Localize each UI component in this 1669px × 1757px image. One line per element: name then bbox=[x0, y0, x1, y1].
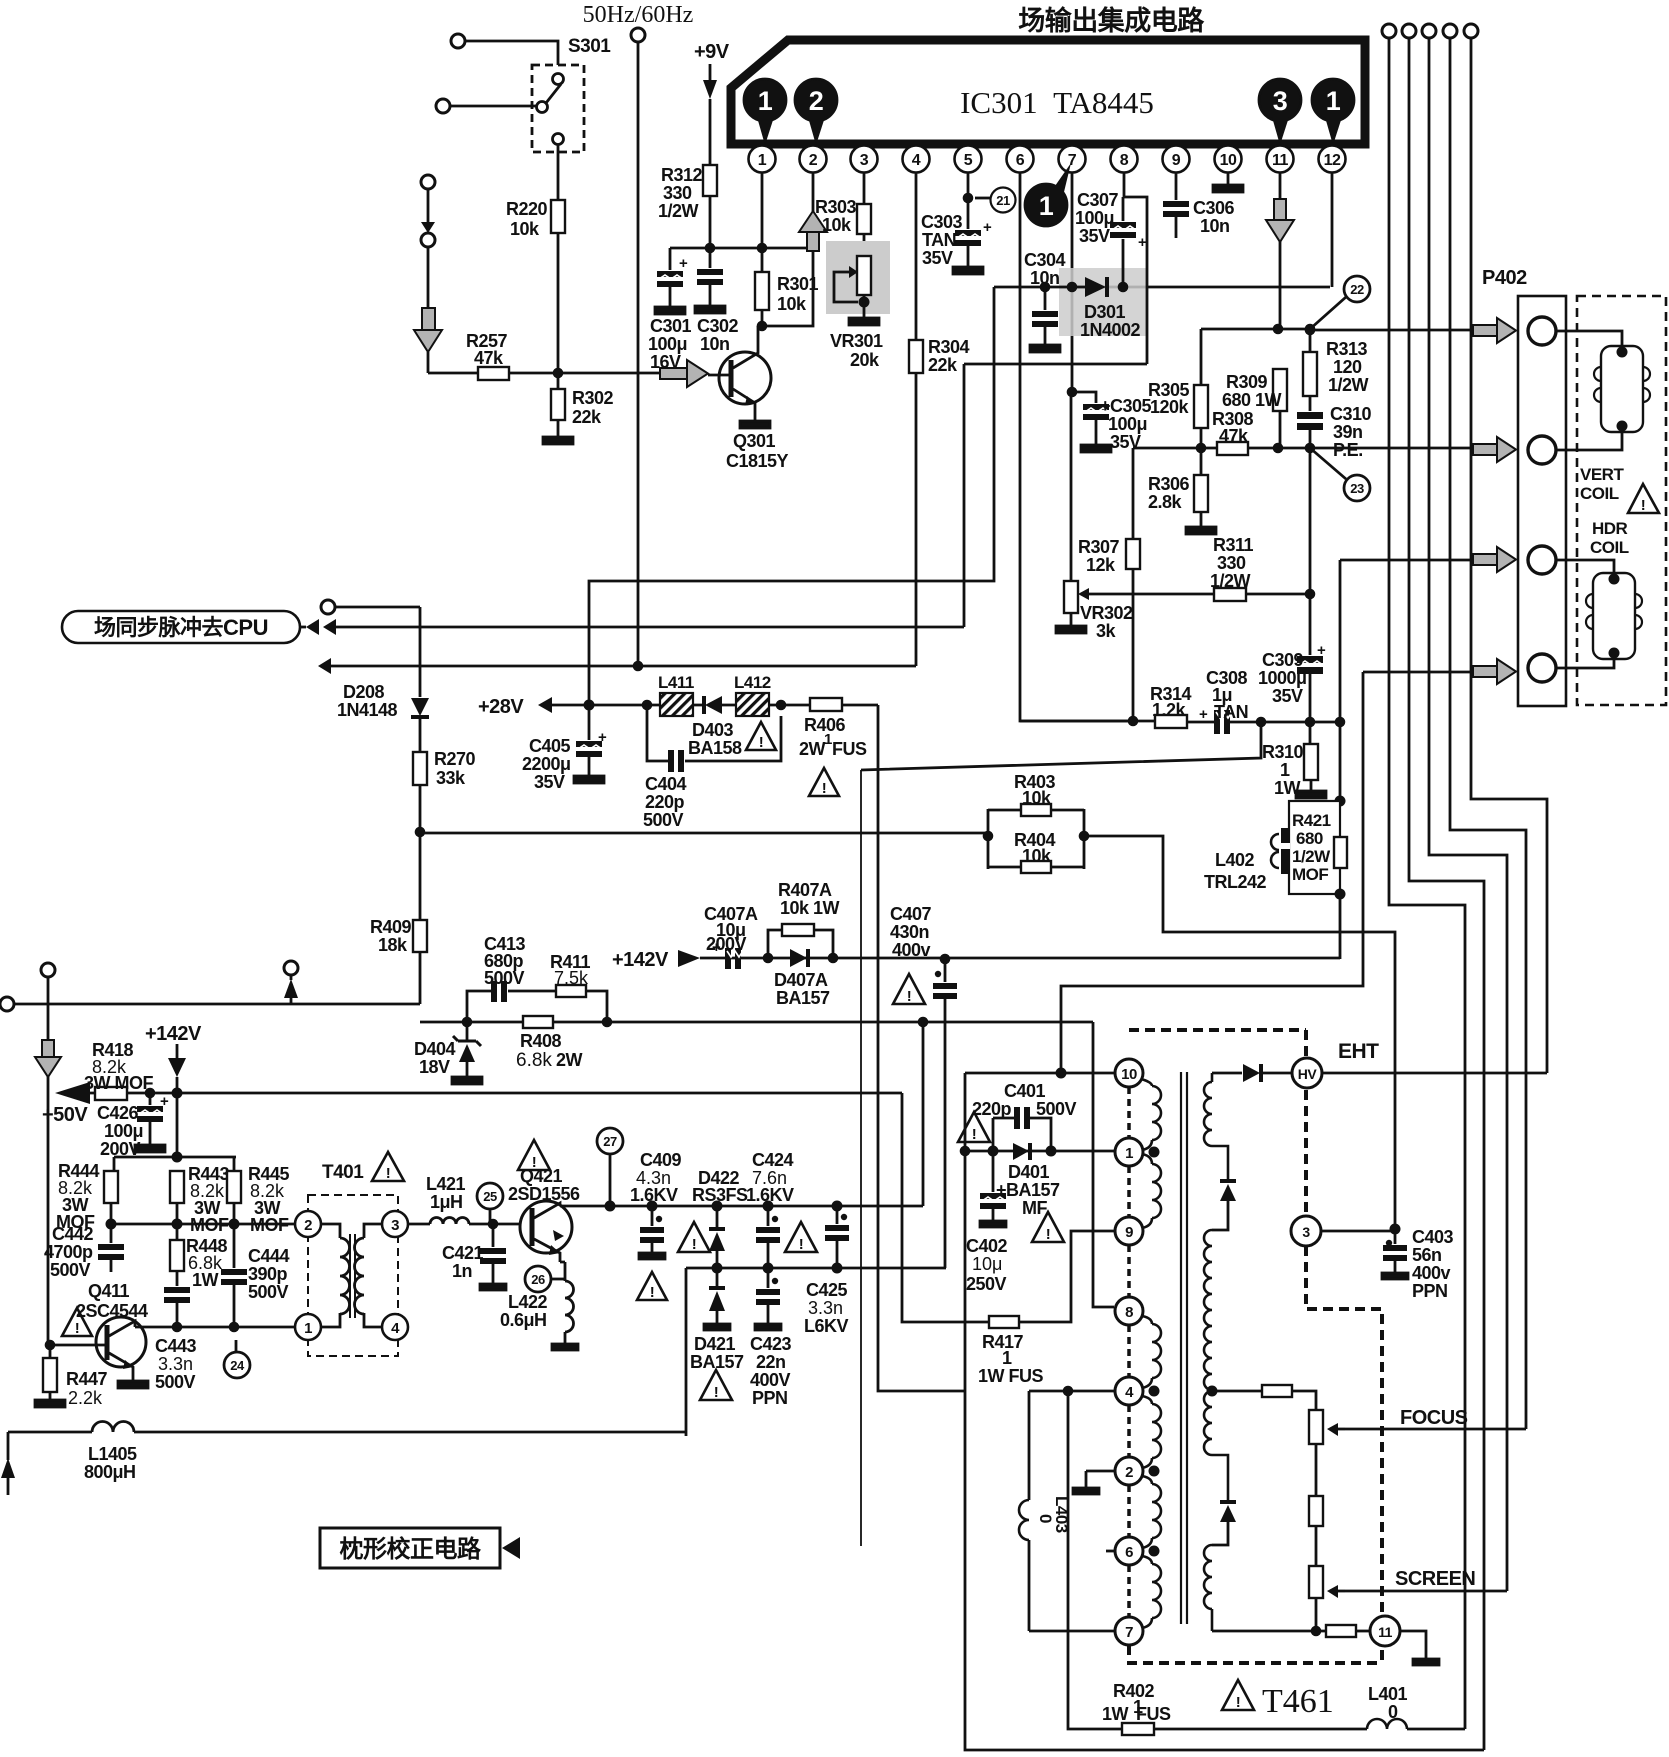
wire dead-end vertical bbox=[860, 770, 862, 1546]
resistor R411 bbox=[550, 952, 591, 997]
svg-text:10μ: 10μ bbox=[972, 1254, 1002, 1274]
gray arrow down on left column bbox=[35, 1040, 61, 1077]
svg-text:C1815Y: C1815Y bbox=[726, 451, 789, 471]
svg-text:39n: 39n bbox=[1333, 422, 1363, 442]
svg-text:8: 8 bbox=[1120, 152, 1129, 169]
svg-text:1: 1 bbox=[1280, 760, 1290, 780]
svg-text:!: ! bbox=[759, 734, 764, 751]
capacitor C421 bbox=[442, 1224, 506, 1290]
svg-text:1: 1 bbox=[1326, 86, 1341, 116]
resistor R404 bbox=[988, 809, 1084, 873]
resistor R310 bbox=[1262, 722, 1326, 798]
diode D403 bbox=[688, 696, 742, 758]
svg-text:+50V: +50V bbox=[42, 1104, 88, 1126]
svg-text:22: 22 bbox=[1350, 282, 1364, 297]
svg-text:R309: R309 bbox=[1226, 372, 1268, 392]
node dots rail y329 bbox=[1273, 324, 1284, 335]
node dots on +9V rail bbox=[705, 243, 716, 254]
wire bottom rail to T401 pin2 bbox=[111, 1223, 295, 1226]
wire R406 down to FOCUS feed bbox=[878, 705, 965, 1391]
svg-text:+C305: +C305 bbox=[1100, 396, 1152, 416]
svg-text:22n: 22n bbox=[756, 1352, 786, 1372]
svg-text:FUS: FUS bbox=[1136, 1704, 1171, 1724]
resistor R257 bbox=[466, 331, 509, 380]
svg-text:C425: C425 bbox=[806, 1280, 848, 1300]
wire terminal2 to bottom loop bbox=[1409, 38, 1484, 1750]
wire pin6 down to R314 line bbox=[1020, 172, 1133, 721]
svg-text:47k: 47k bbox=[1219, 426, 1249, 446]
resistor R305 bbox=[1148, 380, 1208, 448]
svg-text:1/2W: 1/2W bbox=[1210, 571, 1251, 591]
node circle 25 bbox=[477, 1183, 503, 1224]
svg-text:T401: T401 bbox=[322, 1162, 364, 1183]
node top terminal 5 bbox=[1464, 24, 1478, 38]
svg-text:12k: 12k bbox=[1086, 555, 1116, 575]
svg-text:2200μ: 2200μ bbox=[522, 754, 571, 774]
node HV circle bbox=[1292, 1058, 1322, 1088]
svg-text:R447: R447 bbox=[66, 1369, 108, 1389]
IC pin circles 1-12 bbox=[749, 146, 1346, 173]
warning triangle below R406 bbox=[809, 768, 839, 797]
T461 pin 11 bbox=[1370, 1616, 1400, 1646]
svg-text:C424: C424 bbox=[752, 1150, 794, 1170]
capacitor C413 bbox=[484, 934, 526, 1002]
svg-text:!: ! bbox=[907, 988, 912, 1005]
svg-text:200V: 200V bbox=[706, 934, 747, 954]
wire L1405 left end down arrow bbox=[1, 1432, 15, 1495]
svg-text:D421: D421 bbox=[694, 1334, 736, 1354]
svg-text:!: ! bbox=[1236, 1694, 1241, 1711]
power +142V label arrow bbox=[612, 949, 700, 971]
node Q301 collector junction bbox=[757, 321, 768, 332]
svg-text:!: ! bbox=[1641, 497, 1646, 514]
svg-text:C302: C302 bbox=[697, 316, 739, 336]
wire R404 output to C403 column bbox=[1084, 836, 1395, 1229]
resistor focus feed bbox=[1262, 1385, 1316, 1410]
svg-text:C306: C306 bbox=[1193, 198, 1235, 218]
node top terminal 4 bbox=[1443, 24, 1457, 38]
node 50Hz/60Hz terminal bbox=[631, 28, 645, 42]
wire +50V to R417 bbox=[902, 1093, 989, 1322]
svg-text:L402: L402 bbox=[1215, 850, 1255, 870]
svg-text:220p: 220p bbox=[645, 792, 685, 812]
svg-text:PPN: PPN bbox=[752, 1388, 788, 1408]
capacitor C402 bbox=[966, 1151, 1008, 1294]
svg-text:1/2W: 1/2W bbox=[1328, 375, 1369, 395]
svg-text:24: 24 bbox=[230, 1358, 245, 1373]
svg-text:3: 3 bbox=[1302, 1224, 1310, 1240]
svg-text:1000μ: 1000μ bbox=[1258, 668, 1307, 688]
capacitor C409 bbox=[630, 1150, 682, 1259]
power +9V bbox=[694, 41, 730, 165]
T461 pin 8 bbox=[1115, 1297, 1143, 1325]
svg-text:C304: C304 bbox=[1024, 250, 1066, 270]
svg-text:+142V: +142V bbox=[612, 949, 669, 971]
svg-text:10k: 10k bbox=[822, 215, 852, 235]
svg-text:D401: D401 bbox=[1008, 1162, 1050, 1182]
resistor R314 bbox=[1150, 684, 1192, 728]
resistor R447 bbox=[35, 1345, 108, 1408]
svg-text:+: + bbox=[679, 255, 688, 272]
svg-text:!: ! bbox=[1046, 1226, 1051, 1243]
wire terminal3 to SCREEN bbox=[1429, 38, 1507, 1591]
node junction R220/R302 bbox=[553, 368, 564, 379]
capacitor C444 bbox=[221, 1224, 290, 1327]
svg-text:+9V: +9V bbox=[694, 41, 730, 63]
svg-text:1/2W: 1/2W bbox=[658, 201, 699, 221]
svg-text:C309: C309 bbox=[1262, 650, 1304, 670]
node dots second line bbox=[712, 1263, 723, 1274]
svg-text:1N4002: 1N4002 bbox=[1080, 320, 1141, 340]
svg-text:23: 23 bbox=[1350, 481, 1364, 496]
svg-text:18V: 18V bbox=[419, 1057, 450, 1077]
wire pin4 down and left to CPU line2 bbox=[915, 172, 918, 666]
wire pin2 to collector node bbox=[762, 172, 813, 326]
svg-text:C443: C443 bbox=[155, 1336, 197, 1356]
svg-text:R409: R409 bbox=[370, 917, 412, 937]
node top terminal 2 bbox=[1402, 24, 1416, 38]
capacitor C308 on R314 line bbox=[1199, 668, 1248, 734]
capacitor C303 TAN bbox=[921, 198, 992, 274]
svg-text:COIL: COIL bbox=[1590, 538, 1629, 557]
svg-text:VR302: VR302 bbox=[1080, 603, 1133, 623]
resistor R421 box with L402 bbox=[1289, 801, 1347, 894]
svg-text:9: 9 bbox=[1125, 1224, 1133, 1241]
node dots D407A bbox=[763, 953, 774, 964]
svg-text:VR301: VR301 bbox=[830, 331, 883, 351]
svg-text:3W MOF: 3W MOF bbox=[84, 1073, 153, 1093]
capacitor C423 bbox=[750, 1268, 792, 1408]
resistor R307 bbox=[1078, 448, 1140, 721]
wire main line y1206 bbox=[560, 1205, 923, 1208]
power +142V arrow bbox=[145, 1023, 202, 1093]
svg-text:500V: 500V bbox=[484, 968, 525, 988]
svg-text:T461: T461 bbox=[1262, 1683, 1334, 1720]
svg-text:R310: R310 bbox=[1262, 742, 1304, 762]
transformer T401 bbox=[295, 1162, 408, 1356]
svg-text:0.6μH: 0.6μH bbox=[500, 1310, 547, 1330]
coil box dashed bbox=[1577, 296, 1666, 705]
svg-text:R407A: R407A bbox=[778, 880, 832, 900]
svg-text:2: 2 bbox=[1125, 1464, 1133, 1481]
svg-text:500V: 500V bbox=[155, 1372, 196, 1392]
svg-text:+: + bbox=[983, 219, 992, 236]
ground below R302 bbox=[543, 437, 573, 444]
svg-text:2: 2 bbox=[809, 152, 818, 169]
svg-text:1: 1 bbox=[758, 152, 767, 169]
T461 pin 7 bbox=[1115, 1617, 1143, 1645]
svg-text:C402: C402 bbox=[966, 1236, 1008, 1256]
capacitor C307 on pin8 line bbox=[1075, 172, 1147, 287]
wire SCREEN line bbox=[1345, 1590, 1507, 1593]
svg-text:0: 0 bbox=[1036, 1514, 1055, 1523]
T461 pin 4 bbox=[1115, 1377, 1143, 1405]
svg-text:MOF: MOF bbox=[1292, 865, 1328, 884]
node dot pin1 ext bbox=[960, 1146, 971, 1157]
wire CPU sync line 1 with double arrow bbox=[300, 619, 964, 635]
svg-text:2SC4544: 2SC4544 bbox=[76, 1301, 148, 1321]
svg-text:400V: 400V bbox=[750, 1370, 791, 1390]
balloon 3 bbox=[1259, 79, 1301, 145]
svg-text:TRL242: TRL242 bbox=[1204, 872, 1267, 892]
wire P402-4 to pin10 path bbox=[1061, 672, 1363, 1073]
wire circle3 to C403 bbox=[1321, 1230, 1395, 1233]
node dots on collector line bbox=[172, 1322, 183, 1333]
wire second line y1268 bbox=[686, 1267, 946, 1270]
capacitor C310 bbox=[1297, 404, 1372, 460]
svg-text:680: 680 bbox=[1296, 829, 1323, 848]
wire C407 line y959 bbox=[700, 957, 1340, 960]
node dot R270/R403 junction bbox=[415, 827, 426, 838]
svg-text:Q301: Q301 bbox=[733, 431, 776, 451]
node left terminals bbox=[0, 961, 298, 1011]
capacitor C442 bbox=[44, 1224, 124, 1280]
potentiometer SCREEN bbox=[1309, 1566, 1345, 1631]
warning triangle below C407 bbox=[893, 974, 925, 1005]
svg-text:!: ! bbox=[972, 1126, 977, 1143]
wire rail y329 bbox=[1201, 329, 1310, 385]
wire pin7 down bbox=[1071, 172, 1074, 392]
svg-text:12: 12 bbox=[1324, 152, 1341, 169]
wire pin11 down bbox=[1279, 172, 1282, 329]
svg-text:47k: 47k bbox=[474, 348, 504, 368]
diode HV bbox=[1212, 1064, 1292, 1082]
node circle 3 bbox=[1291, 1216, 1321, 1246]
capacitor C304 bbox=[1024, 250, 1066, 352]
node circle 22 bbox=[1310, 276, 1370, 329]
svg-text:C303: C303 bbox=[921, 212, 963, 232]
svg-text:L411: L411 bbox=[658, 673, 694, 692]
svg-text:C310: C310 bbox=[1330, 404, 1372, 424]
wire +9V rail bbox=[670, 247, 813, 250]
label HOR COIL bbox=[1590, 519, 1629, 557]
wire R311 line bbox=[1089, 593, 1310, 596]
svg-text:7.5k: 7.5k bbox=[554, 968, 589, 988]
node dot line1 bbox=[1305, 325, 1316, 336]
connector P402 pin1 bbox=[1528, 317, 1556, 345]
wire R421 bottom to C407 line bbox=[1339, 894, 1342, 959]
wire terminal4 to FOCUS bbox=[1450, 38, 1526, 1429]
diode D422 bbox=[692, 1168, 748, 1268]
svg-text:1: 1 bbox=[1125, 1145, 1133, 1162]
svg-text:!: ! bbox=[799, 1236, 804, 1253]
svg-text:100μ: 100μ bbox=[1108, 414, 1147, 434]
wire to R406 bbox=[769, 704, 810, 707]
node dot pin10 line bbox=[1056, 1068, 1067, 1079]
resistor R418 bbox=[84, 1040, 153, 1100]
svg-text:2W: 2W bbox=[799, 739, 826, 759]
svg-text:C404: C404 bbox=[645, 774, 687, 794]
wire C304 line to +28V node bbox=[589, 287, 994, 705]
resistor R301 bbox=[755, 248, 819, 326]
node circle 24 bbox=[224, 1340, 250, 1378]
svg-text:22k: 22k bbox=[928, 355, 958, 375]
node dots R403/R404 brackets bbox=[983, 831, 994, 842]
svg-text:BA157: BA157 bbox=[776, 988, 830, 1008]
node dots y1022 bbox=[462, 1017, 473, 1028]
warning triangle near D403 bbox=[746, 722, 776, 751]
svg-text:220p: 220p bbox=[972, 1099, 1012, 1119]
transistor Q301 bbox=[708, 326, 789, 471]
svg-text:26: 26 bbox=[531, 1272, 545, 1287]
T461 secondary winding low bbox=[1204, 1391, 1228, 1502]
warning triangle right of C402 bbox=[1032, 1212, 1064, 1243]
node dot R44x rail bbox=[172, 1152, 183, 1163]
svg-text:P.E.: P.E. bbox=[1333, 440, 1363, 460]
node top terminal 1 bbox=[1382, 24, 1396, 38]
transistor Q421 bbox=[508, 1166, 580, 1262]
svg-text:1W FUS: 1W FUS bbox=[978, 1366, 1043, 1386]
wire EHT line bbox=[1322, 1072, 1547, 1075]
svg-text:!: ! bbox=[75, 1320, 80, 1337]
node dot Q411 base bbox=[45, 1340, 56, 1351]
svg-text:20k: 20k bbox=[850, 350, 880, 370]
svg-text:+: + bbox=[1199, 706, 1208, 723]
svg-text:10k 1W: 10k 1W bbox=[780, 898, 840, 918]
node dots on primary bbox=[1149, 1147, 1160, 1158]
svg-text:10k: 10k bbox=[777, 294, 807, 314]
capacitor C401 branch bbox=[972, 1081, 1077, 1152]
svg-text:1n: 1n bbox=[452, 1261, 472, 1281]
wire R402 bottom loop bbox=[1068, 1391, 1367, 1729]
svg-text:25: 25 bbox=[483, 1189, 497, 1204]
wire R411/C413 upper branch bbox=[467, 991, 607, 1022]
wire P402 pin1 to vert coil bbox=[1556, 331, 1622, 346]
svg-text:1: 1 bbox=[1039, 191, 1054, 221]
svg-text:D404: D404 bbox=[414, 1039, 456, 1059]
wire small up arrow from terminal bbox=[284, 975, 298, 1004]
svg-text:4: 4 bbox=[912, 152, 921, 169]
svg-text:RS3FS: RS3FS bbox=[692, 1185, 748, 1205]
gray arrow down on pin11 bbox=[1266, 199, 1294, 242]
warning triangle near Q411 bbox=[62, 1308, 92, 1337]
IC301 outline bbox=[731, 40, 1365, 144]
coil HOR bbox=[1556, 573, 1642, 668]
wire y1022 line bbox=[420, 1021, 1093, 1024]
node top terminal 3 bbox=[1422, 24, 1436, 38]
svg-text:50Hz/60Hz: 50Hz/60Hz bbox=[583, 2, 694, 28]
resistor R312 bbox=[658, 165, 717, 248]
resistor R443 bbox=[170, 1164, 230, 1235]
svg-text:R312: R312 bbox=[661, 165, 703, 185]
svg-text:400v: 400v bbox=[892, 940, 931, 960]
wire y1022 to pin8 bbox=[1093, 1022, 1114, 1307]
svg-text:SCREEN: SCREEN bbox=[1395, 1568, 1475, 1590]
wire terminal1 to L401 return bbox=[1389, 38, 1465, 1729]
svg-text:C403: C403 bbox=[1412, 1227, 1454, 1247]
svg-text:500V: 500V bbox=[1036, 1099, 1077, 1119]
svg-text:430n: 430n bbox=[890, 922, 929, 942]
svg-text:枕形校正电路: 枕形校正电路 bbox=[340, 1535, 482, 1563]
diode D404 zener bbox=[414, 1022, 482, 1084]
warning triangle T461 bbox=[1222, 1680, 1254, 1711]
T461 secondary winding top bbox=[1204, 1073, 1228, 1181]
inductor L411 bbox=[658, 673, 694, 716]
transformer T461 dashed boundary bbox=[1129, 1030, 1382, 1663]
capacitor C405 bbox=[522, 705, 607, 792]
resistor R313 bbox=[1303, 329, 1369, 411]
svg-text:C407: C407 bbox=[890, 904, 932, 924]
svg-text:!: ! bbox=[650, 1284, 655, 1301]
inductor L402 bbox=[1204, 828, 1290, 892]
svg-text:C444: C444 bbox=[248, 1246, 290, 1266]
svg-text:!: ! bbox=[822, 780, 827, 797]
svg-text:IC301 TA8445: IC301 TA8445 bbox=[960, 85, 1154, 120]
svg-text:C426: C426 bbox=[97, 1103, 139, 1123]
svg-text:P402: P402 bbox=[1482, 267, 1527, 289]
node dot L421/C421 bbox=[488, 1219, 499, 1230]
power +50V rail with left arrow bbox=[42, 1082, 902, 1126]
T461 pin 1 bbox=[1115, 1138, 1143, 1166]
svg-text:120k: 120k bbox=[1150, 397, 1190, 417]
svg-text:+28V: +28V bbox=[478, 696, 524, 718]
svg-text:21: 21 bbox=[996, 193, 1010, 208]
svg-text:L1405: L1405 bbox=[88, 1444, 137, 1464]
svg-text:R306: R306 bbox=[1148, 474, 1190, 494]
svg-text:C442: C442 bbox=[52, 1224, 94, 1244]
svg-text:D208: D208 bbox=[343, 682, 385, 702]
svg-text:4: 4 bbox=[391, 1320, 400, 1337]
svg-text:120: 120 bbox=[1333, 357, 1362, 377]
svg-text:330: 330 bbox=[1217, 553, 1246, 573]
svg-text:3: 3 bbox=[860, 152, 869, 169]
gray arrow up on pin2 wire bbox=[799, 211, 827, 251]
gray arrow P402 pin2 bbox=[1473, 437, 1516, 462]
T461 primary winding 8-4 bbox=[1142, 1316, 1161, 1388]
svg-text:R270: R270 bbox=[434, 749, 476, 769]
svg-text:!: ! bbox=[692, 1236, 697, 1253]
T461 core lines bbox=[1181, 1072, 1187, 1624]
node dots rail y448 bbox=[1196, 443, 1207, 454]
svg-text:TAN: TAN bbox=[1214, 702, 1248, 722]
wire second line left leg to L1405 bbox=[685, 1268, 688, 1436]
T461 primary winding 1-9 bbox=[1142, 1154, 1161, 1228]
diode D208 bbox=[337, 607, 429, 752]
node dot R311 right bbox=[1305, 589, 1316, 600]
resistor R220 bbox=[506, 199, 565, 373]
svg-text:3: 3 bbox=[391, 1217, 399, 1234]
node dots pin1 line bbox=[988, 1146, 999, 1157]
svg-text:C423: C423 bbox=[750, 1334, 792, 1354]
inductor L403 bbox=[1019, 1391, 1071, 1631]
connector P402 pin2 bbox=[1528, 436, 1556, 464]
wire R257 line bbox=[428, 372, 478, 375]
svg-text:C401: C401 bbox=[1004, 1081, 1046, 1101]
node 场同步脉冲去CPU oval bbox=[62, 611, 300, 643]
svg-text:BA157: BA157 bbox=[690, 1352, 744, 1372]
svg-text:33k: 33k bbox=[436, 768, 466, 788]
node dot R421 bottom bbox=[1335, 889, 1346, 900]
svg-text:L421: L421 bbox=[426, 1174, 466, 1194]
capacitor C407A bbox=[704, 904, 758, 969]
svg-text:250V: 250V bbox=[966, 1274, 1007, 1294]
svg-text:+142V: +142V bbox=[145, 1023, 202, 1045]
wire R444/R445 top rail bbox=[114, 1157, 236, 1171]
wire 50/60Hz down to CPU line2 bbox=[637, 42, 640, 666]
node dots bottom rail bbox=[106, 1219, 117, 1230]
node dot 50/60 junction bbox=[633, 661, 644, 672]
resistor R445 bbox=[227, 1164, 290, 1235]
node pin5 junction bbox=[963, 193, 974, 204]
connector P402 body bbox=[1518, 296, 1566, 706]
resistor R448 with cap bbox=[164, 1224, 228, 1327]
wire y1004 line bbox=[14, 1003, 420, 1006]
wire R308 rail y448 bbox=[1133, 447, 1471, 450]
T461 primary winding 2-6 bbox=[1142, 1476, 1161, 1548]
svg-text:2: 2 bbox=[809, 86, 824, 116]
T461 primary winding 6-7 bbox=[1142, 1556, 1161, 1628]
wire R403 line left part bbox=[420, 832, 988, 835]
